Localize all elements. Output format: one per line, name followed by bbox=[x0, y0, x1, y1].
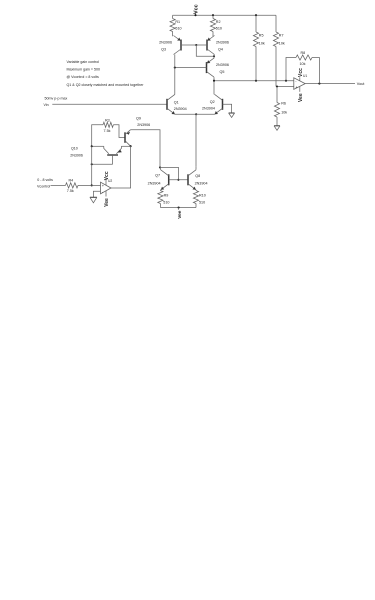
junction Q10 collector bbox=[91, 145, 93, 147]
wire plus-node line bbox=[276, 86, 294, 88]
svg-text:Q4: Q4 bbox=[218, 48, 223, 52]
svg-text:10k: 10k bbox=[259, 42, 265, 46]
svg-text:Vcc: Vcc bbox=[194, 4, 200, 14]
svg-text:Vee: Vee bbox=[104, 198, 110, 207]
junction emitters bbox=[195, 113, 197, 115]
wire mirror bases bbox=[169, 179, 188, 181]
transistor Q8 bbox=[187, 174, 189, 185]
svg-text:10k: 10k bbox=[279, 42, 285, 46]
svg-text:R4: R4 bbox=[69, 179, 74, 183]
wire U1 output bbox=[305, 83, 355, 85]
wire emitter resistors join bbox=[160, 207, 196, 209]
junction R7/R6/plus input bbox=[276, 85, 278, 87]
wire Q2 base to gnd bbox=[223, 104, 232, 113]
junction Vcc tap bbox=[194, 14, 196, 16]
svg-text:R5: R5 bbox=[259, 34, 264, 38]
svg-text:7.5k: 7.5k bbox=[67, 189, 74, 193]
svg-text:2N3904: 2N3904 bbox=[148, 182, 161, 186]
svg-text:Q5: Q5 bbox=[220, 70, 225, 74]
svg-text:Vee: Vee bbox=[298, 93, 304, 102]
svg-text:R8: R8 bbox=[301, 51, 306, 55]
ground at Q2 base bbox=[229, 112, 235, 114]
op-amp U1 bbox=[294, 78, 305, 90]
wire Q5 base to node A bbox=[175, 67, 207, 69]
resistor R1 bbox=[172, 15, 174, 18]
junction R5 bottom bbox=[255, 80, 257, 82]
wire Q7 collector bbox=[159, 167, 162, 169]
svg-text:R10: R10 bbox=[199, 194, 206, 198]
svg-text:@ Vcontrol = 8 volts: @ Vcontrol = 8 volts bbox=[67, 75, 100, 79]
junction Q3/Q4 bases bbox=[195, 44, 197, 46]
wire Q4 collector bbox=[213, 55, 215, 57]
svg-text:510: 510 bbox=[175, 27, 181, 31]
svg-text:Variable gain control: Variable gain control bbox=[67, 60, 100, 64]
svg-text:Vcc: Vcc bbox=[298, 68, 304, 77]
resistor R2 bbox=[212, 15, 214, 18]
U1 Vee bbox=[299, 87, 301, 92]
svg-text:10k: 10k bbox=[281, 111, 287, 115]
U1 Vcc bbox=[299, 77, 301, 81]
svg-text:Maximum gain = 500: Maximum gain = 500 bbox=[67, 67, 100, 71]
svg-text:Vcc: Vcc bbox=[104, 171, 110, 180]
wire Q8 collector (tail) bbox=[195, 166, 197, 170]
svg-text:Q9: Q9 bbox=[136, 116, 141, 120]
junction node A bbox=[174, 67, 176, 69]
transistor Q9 bbox=[124, 132, 126, 143]
wire Q1 emitter bbox=[175, 113, 196, 115]
svg-text:Q8: Q8 bbox=[195, 174, 200, 178]
resistor R5 bbox=[255, 15, 257, 32]
transistor Q3 bbox=[180, 40, 182, 51]
ground below R6 bbox=[274, 125, 280, 127]
svg-text:510: 510 bbox=[216, 27, 222, 31]
svg-text:Q1 & Q2 closely matched and mo: Q1 & Q2 closely matched and mounted toge… bbox=[67, 83, 145, 87]
svg-text:Vee: Vee bbox=[177, 210, 183, 219]
svg-text:R7: R7 bbox=[279, 34, 284, 38]
wire Q2 emitter bbox=[196, 113, 215, 115]
wire Q10 collector to main vertical bbox=[92, 145, 104, 147]
U2 Vcc bbox=[105, 178, 107, 185]
junction Q10 base bbox=[91, 163, 93, 165]
wire U2 minus input to gnd bbox=[93, 191, 100, 197]
wire U2 plus input bbox=[92, 184, 101, 186]
svg-text:2N3904: 2N3904 bbox=[202, 106, 215, 110]
wire Q5 collector down bbox=[213, 77, 215, 81]
junction Vee tap bbox=[178, 206, 180, 208]
resistor R4 bbox=[51, 184, 66, 186]
wire Q9 emitter to Q7 node bbox=[131, 130, 160, 168]
svg-text:R9: R9 bbox=[164, 194, 169, 198]
svg-text:Vout: Vout bbox=[357, 82, 366, 86]
Vee power symbol bbox=[178, 208, 180, 210]
svg-text:Q1: Q1 bbox=[174, 100, 179, 104]
wire minus-node line bbox=[214, 80, 294, 82]
wire Q2 collector up bbox=[213, 81, 215, 95]
wire node X down to U2 output bbox=[111, 146, 131, 188]
svg-text:R3: R3 bbox=[105, 118, 110, 122]
transistor Q1 bbox=[166, 99, 168, 110]
svg-text:Q10: Q10 bbox=[71, 147, 78, 151]
wire Q7 diode loop bbox=[160, 167, 178, 179]
svg-text:Q7: Q7 bbox=[155, 174, 160, 178]
wire Q1 collector up bbox=[174, 68, 176, 95]
transistor Q5 bbox=[206, 62, 208, 73]
junction Q7 collector node bbox=[159, 166, 161, 168]
wire Q3 base bbox=[181, 44, 196, 46]
resistor R10 bbox=[195, 189, 197, 192]
svg-text:0 - 8 volts: 0 - 8 volts bbox=[37, 178, 53, 182]
transistor Q2 bbox=[222, 99, 224, 110]
svg-text:R1: R1 bbox=[175, 20, 180, 24]
wire Vin to Q1 base bbox=[52, 103, 167, 105]
transistor Q4 bbox=[206, 40, 208, 51]
svg-text:510: 510 bbox=[199, 200, 205, 204]
resistor R7 bbox=[275, 15, 277, 32]
svg-text:2N3906: 2N3906 bbox=[70, 153, 83, 157]
junction bases bbox=[177, 179, 179, 181]
junction Q4 collector/Q5 emitter bbox=[213, 55, 215, 57]
svg-text:Q2: Q2 bbox=[210, 100, 215, 104]
resistor R6 bbox=[276, 87, 278, 103]
Vcc power symbol bbox=[195, 12, 197, 15]
resistor R3 bbox=[92, 125, 103, 147]
transistor Q7 bbox=[168, 174, 170, 185]
wire Q10 base wrap bbox=[92, 163, 113, 165]
op-amp U2 bbox=[101, 182, 112, 194]
wire Q4 base bbox=[196, 44, 207, 46]
transistor Q10 (rotated, base down) bbox=[107, 154, 118, 156]
svg-text:10k: 10k bbox=[300, 62, 306, 66]
svg-text:7.5k: 7.5k bbox=[104, 129, 111, 133]
svg-text:R6: R6 bbox=[281, 102, 286, 106]
junction Q5/Q2 collectors bbox=[213, 80, 215, 82]
svg-text:510: 510 bbox=[163, 200, 169, 204]
wire Q10 emitter to node X bbox=[121, 145, 130, 147]
svg-text:Vin: Vin bbox=[44, 103, 49, 107]
junction U2 plus node bbox=[91, 184, 93, 186]
U2 Vee bbox=[105, 191, 107, 197]
svg-text:Vcontrol: Vcontrol bbox=[37, 184, 50, 188]
svg-text:Q3: Q3 bbox=[161, 48, 166, 52]
junction feedback tap bbox=[285, 80, 287, 82]
svg-text:2N3906: 2N3906 bbox=[216, 41, 229, 45]
wire Q5 emitter bbox=[213, 56, 215, 58]
svg-text:2N3906: 2N3906 bbox=[159, 41, 172, 45]
wire base node to Q5 emitter node bbox=[196, 45, 214, 56]
junction rail/R5 bbox=[255, 14, 257, 16]
svg-text:2N3906: 2N3906 bbox=[216, 63, 229, 67]
resistor R8 feedback bbox=[286, 58, 296, 81]
svg-text:2N3906: 2N3906 bbox=[137, 123, 150, 127]
junction output/feedback bbox=[318, 83, 320, 85]
svg-text:50mv p-p max: 50mv p-p max bbox=[45, 97, 68, 101]
wire main control vertical bbox=[91, 146, 93, 185]
svg-text:2N3904: 2N3904 bbox=[195, 182, 208, 186]
wire Vcc rail bbox=[173, 14, 276, 16]
svg-text:R2: R2 bbox=[216, 20, 221, 24]
resistor R9 bbox=[159, 189, 161, 192]
junction node X bbox=[130, 145, 132, 147]
svg-text:2N3904: 2N3904 bbox=[174, 107, 187, 111]
junction rail/R2 bbox=[212, 14, 214, 16]
wire Q3 collector down bbox=[174, 55, 176, 68]
wire tail down bbox=[195, 114, 197, 166]
ground below U2 bbox=[90, 196, 97, 198]
